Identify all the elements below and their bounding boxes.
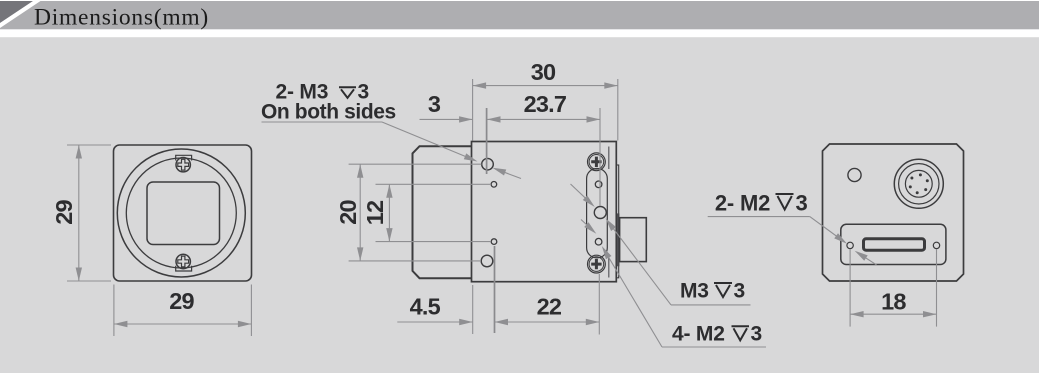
- ext bottom right: [598, 274, 600, 335]
- plate hole middle M3: [594, 207, 606, 219]
- connector outer: [894, 159, 943, 208]
- front dims: [67, 145, 251, 336]
- plate hole small bottom: [595, 238, 602, 245]
- svg-text:3: 3: [796, 191, 808, 216]
- dim line 30: [473, 85, 618, 87]
- svg-text:4- M2: 4- M2: [672, 323, 725, 346]
- hole M2 small upper: [491, 182, 497, 188]
- 2-M2 far arrow: [857, 252, 877, 265]
- dim line 18: [850, 313, 936, 315]
- hole M2 small lower: [491, 239, 497, 245]
- top screw slot: [176, 155, 192, 160]
- svg-text:18: 18: [881, 289, 906, 315]
- ext D hole bottom: [349, 260, 481, 262]
- ext line 29 left bottom: [67, 280, 111, 282]
- svg-text:4.5: 4.5: [410, 294, 441, 320]
- dim line 29 bottom: [114, 323, 252, 325]
- ext line 29 bottom left: [113, 285, 115, 337]
- connector inner: [905, 170, 932, 197]
- svg-text:Dimensions(mm): Dimensions(mm): [34, 4, 209, 30]
- ext bottom body left: [472, 285, 474, 334]
- svg-text:3: 3: [734, 280, 745, 303]
- lens barrel: [413, 146, 472, 278]
- connector flange dark strip: [617, 213, 619, 266]
- svg-text:12: 12: [362, 200, 388, 225]
- sensor window: [147, 182, 220, 245]
- center line hole bottom: [494, 246, 496, 333]
- ext C small hole lower: [376, 241, 492, 243]
- arrows 20: [357, 164, 363, 178]
- label underline: [262, 121, 383, 123]
- arrows 29 left: [76, 145, 82, 159]
- 4-M2 underline: [662, 346, 766, 348]
- LED hole: [848, 168, 861, 181]
- side dims gray lines: [349, 79, 618, 335]
- ext 18 left: [849, 249, 851, 327]
- ext 18 right: [936, 249, 938, 327]
- header bar: [0, 1, 1039, 29]
- front body square: [114, 145, 252, 281]
- dim line 20: [359, 164, 361, 261]
- ext A hole top: [349, 163, 482, 165]
- 2-M2 leader: [810, 217, 845, 242]
- connector block: [620, 218, 647, 262]
- bottom screw slot: [176, 266, 192, 271]
- connector recess: [841, 224, 946, 264]
- center line hole top: [486, 108, 488, 174]
- ext line 29 left top: [67, 144, 111, 146]
- svg-text:29: 29: [51, 200, 77, 225]
- svg-text:23.7: 23.7: [524, 91, 567, 117]
- dim tail 4.5: [397, 321, 472, 323]
- screw hole right: [933, 242, 939, 248]
- top screw: [176, 158, 190, 172]
- io connector: [864, 239, 925, 250]
- screw hole left: [847, 242, 853, 248]
- ext line 29 bottom right: [250, 285, 252, 337]
- ext 23.7 right: [599, 108, 601, 206]
- M3 far arrow: [571, 184, 593, 205]
- svg-text:3: 3: [751, 323, 762, 346]
- lens mount inner circle: [126, 158, 236, 268]
- ext 30 left: [472, 79, 474, 141]
- second leader arrow: [495, 169, 521, 179]
- back dims: [850, 249, 936, 327]
- 4-M2 far arrow: [581, 220, 594, 232]
- depth symbol: [339, 87, 356, 98]
- side screw top: [588, 153, 606, 171]
- svg-text:22: 22: [537, 294, 562, 320]
- plate step edge bottom: [608, 257, 610, 278]
- bottom screw: [176, 254, 190, 268]
- side screw bottom: [588, 255, 606, 273]
- leader to top hole: [382, 122, 474, 160]
- dim line 22: [495, 321, 600, 323]
- ext B small hole upper: [376, 183, 492, 185]
- arrows 29 bottom: [114, 321, 128, 327]
- hole M3 top-left: [482, 158, 494, 170]
- plate hole small top: [595, 181, 602, 188]
- header dark triangle: [0, 1, 33, 23]
- M3 leader: [608, 222, 671, 305]
- 2-M2 underline: [708, 216, 810, 218]
- right plate: [616, 165, 618, 278]
- lens mount outer circle: [117, 149, 245, 277]
- dim line 23.7: [487, 118, 600, 120]
- 4-M2 leader: [604, 250, 662, 348]
- svg-text:29: 29: [169, 288, 194, 314]
- hole M3 bottom-left: [481, 255, 493, 267]
- dim tail 3: [420, 118, 473, 120]
- svg-text:2- M2: 2- M2: [715, 191, 770, 216]
- plate step edge top: [608, 147, 610, 170]
- arrows 23.7: [487, 116, 501, 122]
- svg-text:On both sides: On both sides: [261, 100, 396, 123]
- arrows 30: [473, 82, 487, 88]
- back body: [823, 144, 964, 281]
- dim line 29 left: [78, 145, 80, 281]
- arrow 3 (outside, pointing right): [459, 116, 473, 122]
- svg-text:30: 30: [531, 59, 556, 85]
- ext 30 right: [617, 79, 619, 141]
- M3 underline: [671, 304, 751, 306]
- header white stripe: [0, 1, 41, 28]
- connector ring: [899, 164, 939, 204]
- side body: [472, 142, 617, 282]
- svg-text:20: 20: [335, 200, 361, 225]
- rounded slot on plate: [587, 169, 608, 258]
- svg-text:M3: M3: [680, 280, 709, 303]
- connector pins: [909, 173, 929, 194]
- arrows 12: [386, 184, 392, 198]
- svg-text:3: 3: [428, 91, 441, 117]
- arrow 4.5 (outside, pointing right): [459, 319, 473, 325]
- dim line 12: [388, 184, 390, 241]
- arrows 22: [495, 319, 509, 325]
